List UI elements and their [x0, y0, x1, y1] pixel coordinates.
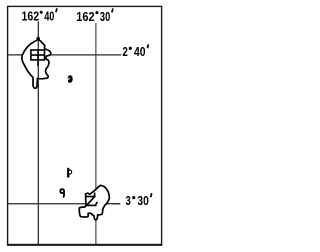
islet 2 (middle): [67, 168, 72, 178]
meridian 162deg30 (x=95.9): [95, 23, 97, 244]
map frame: [8, 6, 162, 244]
svg-text:30: 30: [100, 9, 110, 24]
svg-text:2: 2: [123, 44, 128, 59]
island YI (bottom island): [79, 185, 109, 219]
islet 3 (lower middle, 9-shaped): [60, 189, 64, 197]
wire parallel 3deg30 (y=203.7): [8, 203, 121, 205]
character YI glyph: [87, 193, 97, 205]
svg-text:30: 30: [137, 193, 148, 208]
islet 1 (small, below island JIA): [68, 75, 73, 82]
wire parallel 2deg40 (y=54.9): [8, 54, 122, 56]
label connector dash for 3deg30: [112, 203, 120, 205]
character JIA glyph: [31, 50, 45, 66]
label 3deg30min (right side lower): [126, 193, 152, 208]
svg-text:40: 40: [134, 44, 146, 59]
label 162deg40min (top left): [22, 8, 57, 23]
svg-text:3: 3: [126, 193, 131, 208]
junction dot at island JIA peak: [37, 37, 40, 41]
svg-text:162: 162: [22, 9, 40, 24]
svg-text:40: 40: [44, 9, 54, 24]
label 162deg30min (top right): [76, 8, 113, 24]
svg-text:162: 162: [76, 9, 94, 24]
meridian 162deg40 (x=38.3, drawn over island JIA): [37, 22, 39, 245]
label 2deg40min (right side): [123, 44, 149, 59]
frame bottom thick edge: [7, 244, 162, 246]
island JIA (top-left island): [22, 40, 51, 89]
